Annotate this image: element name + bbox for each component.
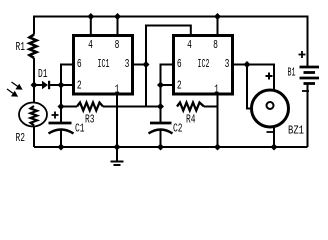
svg-text:B1: B1 — [288, 66, 296, 80]
svg-text:1: 1 — [214, 83, 219, 97]
svg-text:IC1: IC1 — [98, 57, 110, 71]
battery plus sign — [299, 51, 306, 58]
node rail IC2 pin8 — [214, 13, 221, 20]
capacitor C2 plus plate — [149, 123, 173, 134]
svg-text:3: 3 — [125, 57, 130, 71]
node rail IC1 pin4 — [87, 13, 94, 20]
wire IC2 pin2 — [161, 84, 174, 86]
node B junction — [58, 82, 65, 89]
svg-text:D1: D1 — [38, 67, 48, 81]
light arrow 2 — [7, 89, 14, 94]
wire IC1 pin6 link — [61, 65, 74, 107]
diode D1 — [42, 81, 50, 89]
ground — [111, 147, 124, 165]
photoresistor R2 zigzag — [31, 106, 38, 125]
node rail C1 — [58, 144, 65, 151]
wire IC2 pin6 link — [161, 65, 174, 107]
buzzer BZ1 body — [252, 90, 289, 127]
capacitor C1 plus plate — [49, 123, 74, 134]
node G junction IC2 pin2 — [157, 82, 164, 89]
battery minus sign — [302, 90, 309, 92]
node rail IC2 pin1 — [214, 144, 221, 151]
wire C2 bottom to rail — [160, 130, 162, 147]
svg-text:3: 3 — [225, 57, 230, 71]
wire bottom ground rail — [34, 146, 308, 148]
wire buzzer minus to rail — [273, 126, 275, 148]
node rail C2 — [157, 144, 164, 151]
wire battery minus to rail — [307, 84, 309, 148]
svg-text:8: 8 — [213, 38, 218, 52]
wire C1 top lead — [60, 107, 62, 123]
buzzer plus sign — [266, 73, 273, 80]
wire D1 cathode to node B — [50, 84, 61, 86]
wire node A to D1 anode — [34, 84, 42, 86]
node J junction IC2 pin3 — [244, 61, 251, 68]
svg-text:2: 2 — [177, 79, 182, 93]
wire C2 top lead — [160, 107, 162, 123]
wire IC1 pin1 to rail — [116, 94, 118, 147]
node A junction — [31, 82, 38, 89]
svg-text:R1: R1 — [16, 40, 26, 54]
svg-text:6: 6 — [77, 57, 82, 71]
svg-text:R2: R2 — [16, 131, 26, 145]
svg-text:6: 6 — [177, 57, 182, 71]
wire IC2 pin8 to rail — [217, 17, 219, 36]
wire C1 bottom to rail — [60, 130, 62, 147]
wire R2 bottom to ground rail — [33, 126, 35, 147]
node rail buzzer — [271, 144, 278, 151]
IC op box IC1 — [74, 36, 133, 95]
wire R1 bottom to node A — [33, 58, 35, 103]
wire node J down to buzzer left — [247, 65, 252, 109]
svg-text:8: 8 — [115, 38, 120, 52]
wire node F down to bottom run — [145, 65, 147, 107]
wire R4 right to IC2 pin1 — [204, 106, 218, 108]
IC op box IC2 — [174, 36, 233, 95]
resistor R1 — [30, 35, 37, 59]
buzzer minus sign — [267, 131, 274, 133]
wire IC1 pin8 to rail — [117, 17, 119, 36]
wire IC2 pin3 to node J — [233, 64, 248, 66]
svg-text:4: 4 — [88, 38, 93, 52]
svg-text:1: 1 — [115, 83, 120, 97]
node F junction IC1 pin3 — [143, 61, 150, 68]
svg-text:C1: C1 — [75, 122, 85, 136]
svg-text:C2: C2 — [173, 122, 183, 136]
svg-text:4: 4 — [187, 38, 192, 52]
svg-text:R3: R3 — [85, 113, 95, 127]
wire IC1 pin3 to node F — [133, 64, 147, 66]
node rail IC1 pin8 — [114, 13, 121, 20]
C1 plus sign — [52, 112, 59, 119]
svg-text:2: 2 — [77, 79, 82, 93]
wire node J to buzzer plus — [247, 65, 274, 92]
node C junction R3 C1 — [58, 103, 65, 110]
light arrow 1 — [7, 82, 22, 96]
node rail ground — [114, 144, 121, 151]
resistor R3 — [77, 103, 103, 111]
wire IC1 pin2 — [61, 84, 74, 86]
wire top supply rail — [34, 17, 308, 68]
wire node C to R3 — [61, 106, 77, 108]
wire IC2 pin1 to rail — [217, 94, 219, 147]
node H junction C2 R4 — [157, 103, 164, 110]
svg-text:BZ1: BZ1 — [288, 124, 304, 138]
buzzer BZ1 inner — [267, 102, 274, 109]
resistor R4 — [177, 103, 204, 111]
battery B1 plates — [300, 67, 320, 84]
svg-text:R4: R4 — [186, 113, 196, 127]
svg-text:IC2: IC2 — [198, 57, 210, 71]
wire IC1 pin4 to rail — [90, 17, 92, 36]
wire loop IC1 pin3 node to IC2 pin4 — [146, 26, 191, 65]
photoresistor R2 body — [19, 103, 47, 127]
wire R3 to C2 node run — [103, 106, 161, 108]
